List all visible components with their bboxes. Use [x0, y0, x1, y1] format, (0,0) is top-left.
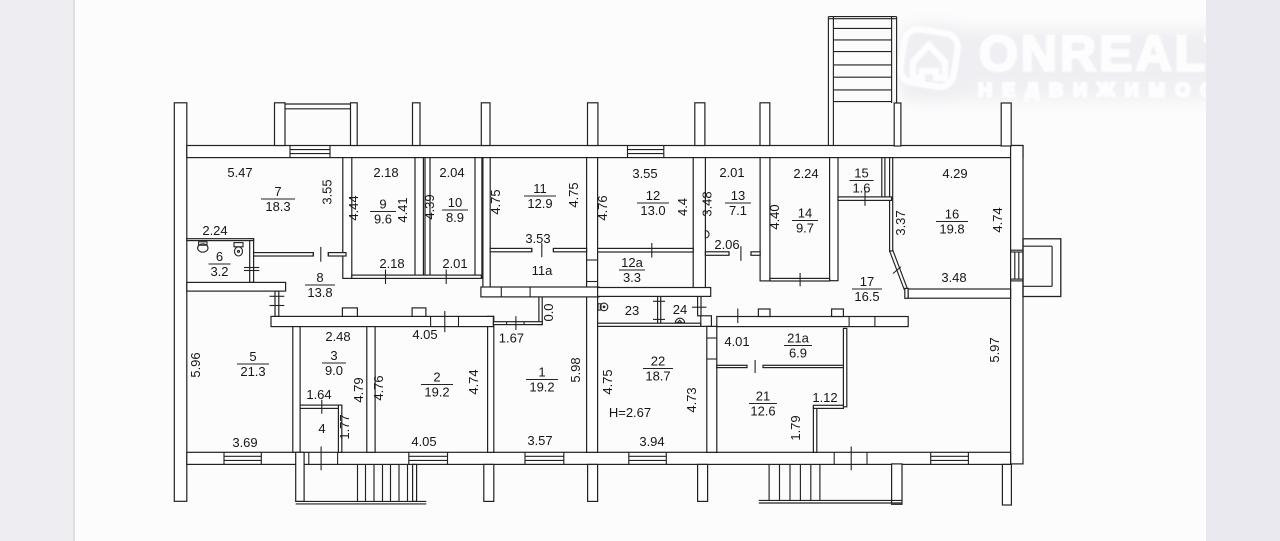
svg-text:2.01: 2.01 — [442, 256, 467, 271]
toilet fixture 1 in room 6 — [198, 242, 208, 252]
entrance door jamb bay1 left — [308, 452, 310, 464]
svg-text:22: 22 — [651, 353, 665, 368]
svg-text:2: 2 — [433, 369, 440, 384]
rung on wall 22/21 upper — [707, 337, 717, 339]
window top band middle — [628, 146, 664, 158]
room 11a south thick band — [481, 287, 599, 297]
top facade pillar stub 9 — [1001, 103, 1011, 146]
wall between room 10 and room 11 (right leaf) — [483, 158, 490, 297]
room 16 south band — [908, 289, 1010, 298]
bay window outline right side — [1023, 239, 1061, 297]
svg-text:2.18: 2.18 — [373, 165, 398, 180]
svg-text:13: 13 — [731, 188, 745, 203]
window bottom band 3 — [525, 452, 564, 464]
svg-text:1.64: 1.64 — [306, 387, 331, 402]
wall between room 12 and room 13 — [693, 158, 705, 290]
room label 3 — [322, 348, 346, 378]
rooms 23/24 north band — [598, 288, 711, 297]
svg-text:3.55: 3.55 — [320, 179, 335, 204]
door tick room 10 — [445, 270, 447, 285]
wall between room 14 and rooms 15/17 — [830, 158, 838, 281]
door jamb 11a left — [531, 248, 533, 251]
door jamb room 7 right — [327, 253, 329, 256]
stair bay 2 landing lines — [759, 500, 902, 503]
room 7 south wall west part — [254, 253, 314, 256]
svg-text:3.2: 3.2 — [210, 264, 228, 279]
room label 2 — [421, 369, 453, 399]
svg-text:8.9: 8.9 — [446, 210, 464, 225]
pillar below band at east end — [1002, 464, 1011, 505]
svg-text:12.6: 12.6 — [750, 403, 775, 418]
svg-text:9: 9 — [379, 196, 386, 211]
node 0.0 wall — [539, 297, 542, 325]
room label 5 — [237, 349, 269, 379]
svg-text:4.74: 4.74 — [990, 207, 1005, 232]
svg-text:11a: 11a — [532, 263, 553, 278]
svg-text:8: 8 — [316, 270, 323, 285]
svg-text:5.98: 5.98 — [568, 357, 583, 382]
svg-text:3.37: 3.37 — [893, 210, 908, 235]
division 21a band 1 — [848, 317, 850, 327]
entrance door jamb bay2 left — [833, 452, 835, 464]
door tick room 7 — [320, 247, 322, 262]
svg-text:4.4: 4.4 — [675, 198, 690, 216]
sink in room 23 — [598, 303, 608, 311]
room label 22 — [643, 353, 673, 383]
door tick room 24 east — [692, 306, 707, 308]
room 15 south wall — [838, 197, 892, 201]
closet 4 north wall — [300, 405, 342, 408]
svg-text:12a: 12a — [621, 255, 643, 270]
svg-text:21a: 21a — [787, 330, 809, 345]
door jamb room 2 north 1 — [430, 316, 432, 326]
balcony rail upper — [285, 103, 351, 105]
svg-text:3.55: 3.55 — [632, 166, 657, 181]
rooms 23/24 south wall — [598, 323, 701, 326]
wall right of room 6 — [250, 239, 254, 283]
svg-text:2.01: 2.01 — [719, 165, 744, 180]
svg-text:2.24: 2.24 — [202, 223, 227, 238]
room label 9 — [370, 196, 396, 226]
door tick room 13 — [740, 246, 742, 261]
svg-text:13.0: 13.0 — [640, 203, 665, 218]
svg-text:18.7: 18.7 — [645, 368, 670, 383]
window bottom band 5 — [931, 452, 969, 464]
svg-text:5: 5 — [249, 349, 256, 364]
svg-text:3.94: 3.94 — [639, 434, 664, 449]
svg-text:2.24: 2.24 — [793, 166, 818, 181]
stair bay 2 right wall — [892, 464, 902, 504]
room label 13 — [725, 188, 751, 218]
entrance door jamb bay2 right — [866, 452, 868, 464]
door tick room 12a — [651, 243, 653, 258]
pillar below band at room 21 west — [698, 464, 708, 501]
toilet in room 24 — [675, 318, 684, 323]
room label 21a — [784, 330, 812, 360]
wall right of room 21a — [843, 328, 846, 406]
door tick closet 4 — [321, 400, 323, 414]
svg-text:5.97: 5.97 — [987, 337, 1002, 362]
left gray margin bar — [0, 0, 75, 541]
svg-text:1.12: 1.12 — [812, 390, 837, 405]
door jamb 11a right — [552, 248, 554, 251]
top facade pillar stub 7 — [760, 103, 770, 146]
door tick room 6 upper — [244, 267, 259, 269]
division mark in 11a band 1 — [500, 287, 502, 297]
top facade pillar stub 8 — [894, 103, 901, 146]
svg-text:3.57: 3.57 — [527, 433, 552, 448]
svg-text:4.01: 4.01 — [724, 334, 749, 349]
stair bay 1 landing lines — [296, 501, 427, 504]
door jamb room 13 right — [750, 252, 752, 256]
division room 1 north 2 — [523, 322, 525, 325]
rung on wall 22/21 lower — [707, 358, 717, 360]
svg-text:4.05: 4.05 — [411, 434, 436, 449]
svg-text:16.5: 16.5 — [854, 289, 879, 304]
room 1 north thin wall — [493, 322, 542, 325]
svg-text:9.6: 9.6 — [374, 211, 392, 226]
wall between room 13 and room 14 — [760, 158, 770, 281]
wall between room 9 and room 10 (left leaf) — [415, 158, 423, 279]
svg-text:9.7: 9.7 — [796, 220, 814, 235]
staircase tower treads — [833, 28, 891, 101]
svg-text:1: 1 — [538, 364, 545, 379]
door tick room 6 lower — [244, 270, 259, 272]
room label 17 — [852, 274, 882, 304]
svg-text:4.75: 4.75 — [600, 369, 615, 394]
window bottom band 2 — [409, 452, 448, 464]
svg-text:1.79: 1.79 — [788, 415, 803, 440]
svg-text:21: 21 — [756, 388, 770, 403]
wall between room 7 and room 9 — [343, 158, 352, 279]
door tick room 15 — [864, 191, 866, 205]
pillar right of room 24 — [701, 316, 712, 327]
room label 12 — [637, 188, 669, 218]
division mark in 11a band 2 — [529, 287, 531, 297]
svg-text:0.0: 0.0 — [541, 303, 556, 321]
room label 14 — [792, 205, 818, 235]
top facade pillar stub 6 — [695, 103, 705, 146]
svg-text:5.47: 5.47 — [227, 165, 252, 180]
svg-text:12: 12 — [646, 188, 660, 203]
connector rung lower — [270, 305, 285, 307]
wall between room 9 and room 10 (right leaf) — [425, 158, 430, 279]
room label 8 — [305, 270, 335, 300]
rung on spine wall upper — [587, 259, 598, 261]
svg-text:2.04: 2.04 — [439, 165, 464, 180]
wall between room 3 and room 2 — [367, 326, 375, 453]
svg-text:14: 14 — [798, 205, 812, 220]
balcony rail lower — [285, 108, 351, 110]
room 21 step south wall — [813, 405, 843, 408]
svg-text:9.0: 9.0 — [325, 363, 343, 378]
pillar below band at room 1 west — [484, 464, 494, 501]
room label 16 — [936, 206, 968, 236]
tick on 23/24 divider bottom — [653, 318, 665, 320]
wall left of room 16 — [890, 158, 893, 251]
svg-text:4.75: 4.75 — [488, 189, 503, 214]
room label 21 — [749, 388, 777, 418]
svg-text:3.48: 3.48 — [700, 191, 715, 216]
svg-text:6.9: 6.9 — [789, 345, 807, 360]
diagonal wall room 16 / room 17 — [890, 250, 908, 290]
door tick on diagonal wall — [893, 267, 901, 274]
door tick corridor to room 2 — [444, 311, 446, 332]
svg-text:4: 4 — [318, 421, 325, 436]
wall between room 2 and room 1 — [488, 316, 494, 452]
svg-text:17: 17 — [860, 274, 874, 289]
door tick corridor 21a west — [737, 309, 739, 324]
outer wall top band — [187, 146, 1023, 158]
svg-text:2.48: 2.48 — [325, 329, 350, 344]
door tick room 1 north — [515, 316, 517, 330]
door tick room 11a — [541, 243, 543, 257]
window bottom band 1 — [224, 452, 261, 464]
wall between room 11 and 11a west part — [490, 248, 532, 251]
top facade pillar stub 4 — [481, 103, 490, 146]
pillar bump on corridor band 1 — [342, 308, 357, 317]
stair bay 1 right wall — [413, 464, 417, 501]
svg-text:4.29: 4.29 — [942, 166, 967, 181]
svg-text:4.40: 4.40 — [767, 204, 782, 229]
svg-text:15: 15 — [854, 165, 868, 180]
svg-text:3.48: 3.48 — [941, 270, 966, 285]
svg-text:2.06: 2.06 — [714, 237, 739, 252]
svg-text:3.53: 3.53 — [525, 231, 550, 246]
svg-text:10: 10 — [448, 195, 462, 210]
svg-text:4.76: 4.76 — [371, 375, 386, 400]
outer wall right — [1011, 146, 1023, 464]
room 7 south wall east part — [328, 253, 346, 256]
wall between room 11 and 11a east part — [553, 248, 586, 251]
division 21a band 2 — [874, 317, 876, 327]
wall right of room 15 — [882, 158, 885, 201]
wall between room 23 and room 24 — [658, 296, 661, 323]
svg-text:3.3: 3.3 — [623, 270, 641, 285]
svg-text:4.44: 4.44 — [346, 195, 361, 220]
top facade pillar stub 1 — [275, 103, 286, 146]
svg-text:4.73: 4.73 — [684, 387, 699, 412]
top facade pillar stub 2 — [351, 103, 358, 146]
room label 7 — [261, 184, 295, 214]
svg-text:21.3: 21.3 — [240, 364, 265, 379]
svg-text:4.41: 4.41 — [395, 197, 410, 222]
wall step right of room 21 — [813, 406, 816, 452]
room label 15 — [850, 165, 874, 195]
rung on spine wall lower — [587, 281, 598, 283]
corridor 21a north band — [717, 317, 908, 327]
svg-text:4.05: 4.05 — [412, 327, 437, 342]
svg-text:24: 24 — [673, 302, 687, 317]
staircase tower walls — [828, 17, 896, 146]
svg-text:19.2: 19.2 — [529, 379, 554, 394]
entrance door tick bay2 — [850, 447, 852, 471]
right gray margin bar — [1206, 0, 1280, 541]
corner wall right of diagonal — [905, 288, 908, 298]
door tick room 9 — [385, 270, 387, 285]
door tick room 21 — [754, 360, 756, 373]
door jamb room 7 left — [312, 253, 314, 256]
wall right of room 23/24 (thin) — [698, 290, 701, 316]
wall between 21a and 21 west part — [717, 365, 747, 367]
room label 12a — [619, 255, 645, 285]
toilet fixture 2 in room 6 — [234, 243, 243, 256]
svg-text:7.1: 7.1 — [729, 203, 747, 218]
outer wall left — [174, 103, 187, 502]
window in right wall — [1011, 250, 1023, 281]
svg-text:18.3: 18.3 — [265, 199, 290, 214]
svg-text:13.8: 13.8 — [307, 285, 332, 300]
entrance door tick bay1 — [320, 447, 322, 471]
svg-text:12.9: 12.9 — [527, 196, 552, 211]
room 13 south wall west part — [705, 252, 729, 256]
svg-text:4.76: 4.76 — [595, 195, 610, 220]
window top band left — [290, 146, 330, 158]
room 13 south wall east part — [751, 252, 760, 256]
outer wall bottom band — [187, 452, 1011, 464]
closet 4 east wall — [338, 405, 341, 452]
wall between room 5 and room 3 — [293, 326, 300, 453]
top facade pillar stub 3 — [413, 103, 421, 146]
pillar below band at room 22 west — [588, 464, 598, 501]
svg-text:4.79: 4.79 — [351, 377, 366, 402]
room label 1 — [526, 364, 558, 394]
svg-text:16: 16 — [945, 206, 959, 221]
spine wall rooms 11/12 and 12a/22 — [587, 158, 598, 453]
room 12a north wall — [598, 248, 694, 252]
svg-text:11: 11 — [533, 181, 547, 196]
connector wall room 5 / corridor 8 — [275, 291, 279, 316]
svg-text:4.74: 4.74 — [466, 369, 481, 394]
stair bay 1 left wall — [296, 452, 304, 501]
svg-text:4.75: 4.75 — [566, 182, 581, 207]
division room 1 north 1 — [506, 322, 508, 325]
svg-text:23: 23 — [625, 303, 639, 318]
svg-text:1.67: 1.67 — [499, 331, 524, 346]
entrance door jamb bay1 right — [337, 452, 339, 464]
rooms 9/10 south wall — [352, 275, 482, 278]
wall between 21a and 21 east part — [763, 365, 843, 367]
door jamb room 2 north 2 — [458, 316, 460, 326]
room 5 north band — [187, 282, 286, 291]
pillar bump on corridor band 2 — [412, 308, 426, 317]
stair bay 2 risers — [769, 464, 820, 501]
svg-text:4.39: 4.39 — [422, 194, 437, 219]
door tick room 14 — [799, 273, 801, 286]
window bottom band 4 — [629, 452, 667, 464]
pillar bump on 21a band 2 — [832, 309, 844, 317]
connector rung upper — [270, 295, 285, 297]
room label 11 — [524, 181, 556, 211]
corridor 8 south band — [271, 316, 493, 326]
svg-text:H=2.67: H=2.67 — [609, 405, 651, 420]
svg-text:19.2: 19.2 — [424, 384, 449, 399]
knob circle room 13 — [705, 231, 709, 238]
room label 10 — [442, 195, 468, 225]
svg-text:1.77: 1.77 — [337, 414, 352, 439]
svg-text:5.96: 5.96 — [188, 352, 203, 377]
svg-text:6: 6 — [216, 249, 223, 264]
room label 6 — [209, 249, 231, 279]
svg-text:19.8: 19.8 — [939, 221, 964, 236]
door jamb room 13 left — [728, 252, 730, 256]
svg-text:3.69: 3.69 — [232, 435, 257, 450]
svg-text:7: 7 — [274, 184, 281, 199]
wall between room 22 and room 21 — [707, 326, 717, 452]
wall between room 10 and room 11 (left leaf) — [475, 158, 482, 279]
top facade pillar stub 5 — [588, 103, 598, 146]
stair bay 1 risers — [358, 464, 408, 501]
room 6 north wall — [187, 239, 254, 241]
svg-text:3: 3 — [330, 348, 337, 363]
room 14 south wall — [770, 278, 830, 281]
tick on 23/24 divider top — [653, 300, 665, 302]
svg-text:1.6: 1.6 — [852, 180, 870, 195]
svg-text:2.18: 2.18 — [379, 256, 404, 271]
pillar bump on 21a band 1 — [758, 309, 770, 317]
